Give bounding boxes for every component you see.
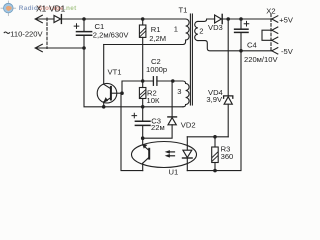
wire base node up to C2 line (122, 81, 153, 93)
T1 winding 1 (186, 19, 190, 40)
node R2 bottom (141, 105, 145, 109)
zener VD4 (224, 19, 233, 137)
svg-text:C4: C4 (247, 40, 257, 49)
X2 socket pin4 (272, 48, 278, 54)
T1 winding 3 (183, 84, 189, 107)
svg-text:3: 3 (177, 87, 181, 96)
capacitor C1 (74, 19, 91, 48)
resistor R2 (139, 81, 146, 107)
svg-text:110-220V: 110-220V (10, 30, 43, 39)
svg-text:VT1: VT1 (108, 68, 122, 77)
X2 socket pin2 (272, 27, 278, 33)
common rail primary (104, 106, 183, 108)
wire VT1 collector up (103, 45, 105, 85)
svg-text:22м: 22м (151, 123, 165, 132)
svg-text:2,2М: 2,2М (149, 34, 166, 43)
X2 shorting bracket (262, 30, 271, 40)
svg-text:X2: X2 (266, 6, 275, 15)
svg-text:RadioStorage.net: RadioStorage.net (19, 5, 77, 12)
T1 winding 2 (195, 19, 272, 51)
node VT1 base (120, 91, 124, 95)
svg-text:1000p: 1000p (146, 65, 167, 74)
wire top rail (61, 18, 185, 20)
resistor R1 (139, 19, 146, 81)
svg-text:VD1: VD1 (49, 4, 66, 14)
optocoupler U1 ellipse (132, 142, 197, 168)
U1 phototransistor (142, 138, 149, 170)
U1 LED (183, 137, 193, 171)
wire collector to winding 1 (104, 40, 186, 45)
capacitor C3 (132, 107, 150, 138)
svg-text:360: 360 (221, 152, 234, 161)
logo text RadioStorage.net (19, 5, 77, 12)
node winding3 top (171, 79, 175, 83)
U1 light arrows (165, 150, 175, 158)
svg-text:220м/10V: 220м/10V (244, 55, 278, 64)
transformer T1 core (190, 14, 192, 105)
svg-text:2: 2 (199, 27, 203, 36)
node VT1 emitter (102, 105, 106, 109)
logo icon (1, 1, 16, 16)
svg-text:X1: X1 (36, 4, 47, 14)
transistor VT1 (97, 83, 122, 106)
svg-text:U1: U1 (169, 168, 179, 177)
svg-text:-5V: -5V (281, 47, 294, 56)
svg-text:2,2м/630V: 2,2м/630V (93, 31, 130, 40)
node R1 bottom / base line (141, 79, 145, 83)
node VD4 branch top (226, 17, 230, 21)
resistor R3 (212, 137, 219, 171)
svg-text:VD3: VD3 (208, 23, 223, 32)
node C4 top (239, 17, 243, 21)
svg-text:10К: 10К (147, 96, 160, 105)
wire VD4 to LED top (187, 136, 228, 138)
node R3 top (213, 135, 217, 139)
wire LED bottom rail to C4 line (187, 51, 241, 171)
X1 connector dashed housing (46, 18, 48, 49)
node C1 top (82, 17, 86, 21)
X1 pin top arrow (35, 15, 54, 22)
capacitor C2 (153, 77, 173, 86)
svg-text:C1: C1 (95, 22, 105, 31)
X2 socket pin3 (272, 37, 278, 43)
capacitor C4 (235, 19, 249, 51)
svg-text:T1: T1 (179, 5, 188, 14)
label ~110-220V tilde (4, 32, 10, 33)
wire C1 down to common rail (84, 48, 104, 107)
svg-text:3,9V: 3,9V (206, 95, 223, 104)
wire winding3 top lead (173, 81, 186, 84)
wire U1 emitter to base column (121, 93, 143, 170)
node R3 bottom (213, 169, 217, 173)
connector X2 dashed line (270, 14, 272, 51)
svg-text:+5V: +5V (279, 15, 294, 24)
diode VD3 (215, 14, 272, 23)
X2 socket pin1 (272, 16, 278, 22)
X1 pin bottom arrow (35, 44, 84, 51)
diode VD1 (54, 15, 61, 24)
node C4 bottom (239, 49, 243, 53)
node C1 bottom (82, 46, 86, 50)
svg-text:VD2: VD2 (181, 120, 196, 129)
diode VD2 (168, 81, 177, 125)
node R1 top (141, 17, 145, 21)
node C3 bottom (141, 136, 145, 140)
wire C3 node to VD2 (143, 125, 172, 138)
svg-text:1: 1 (174, 24, 178, 33)
